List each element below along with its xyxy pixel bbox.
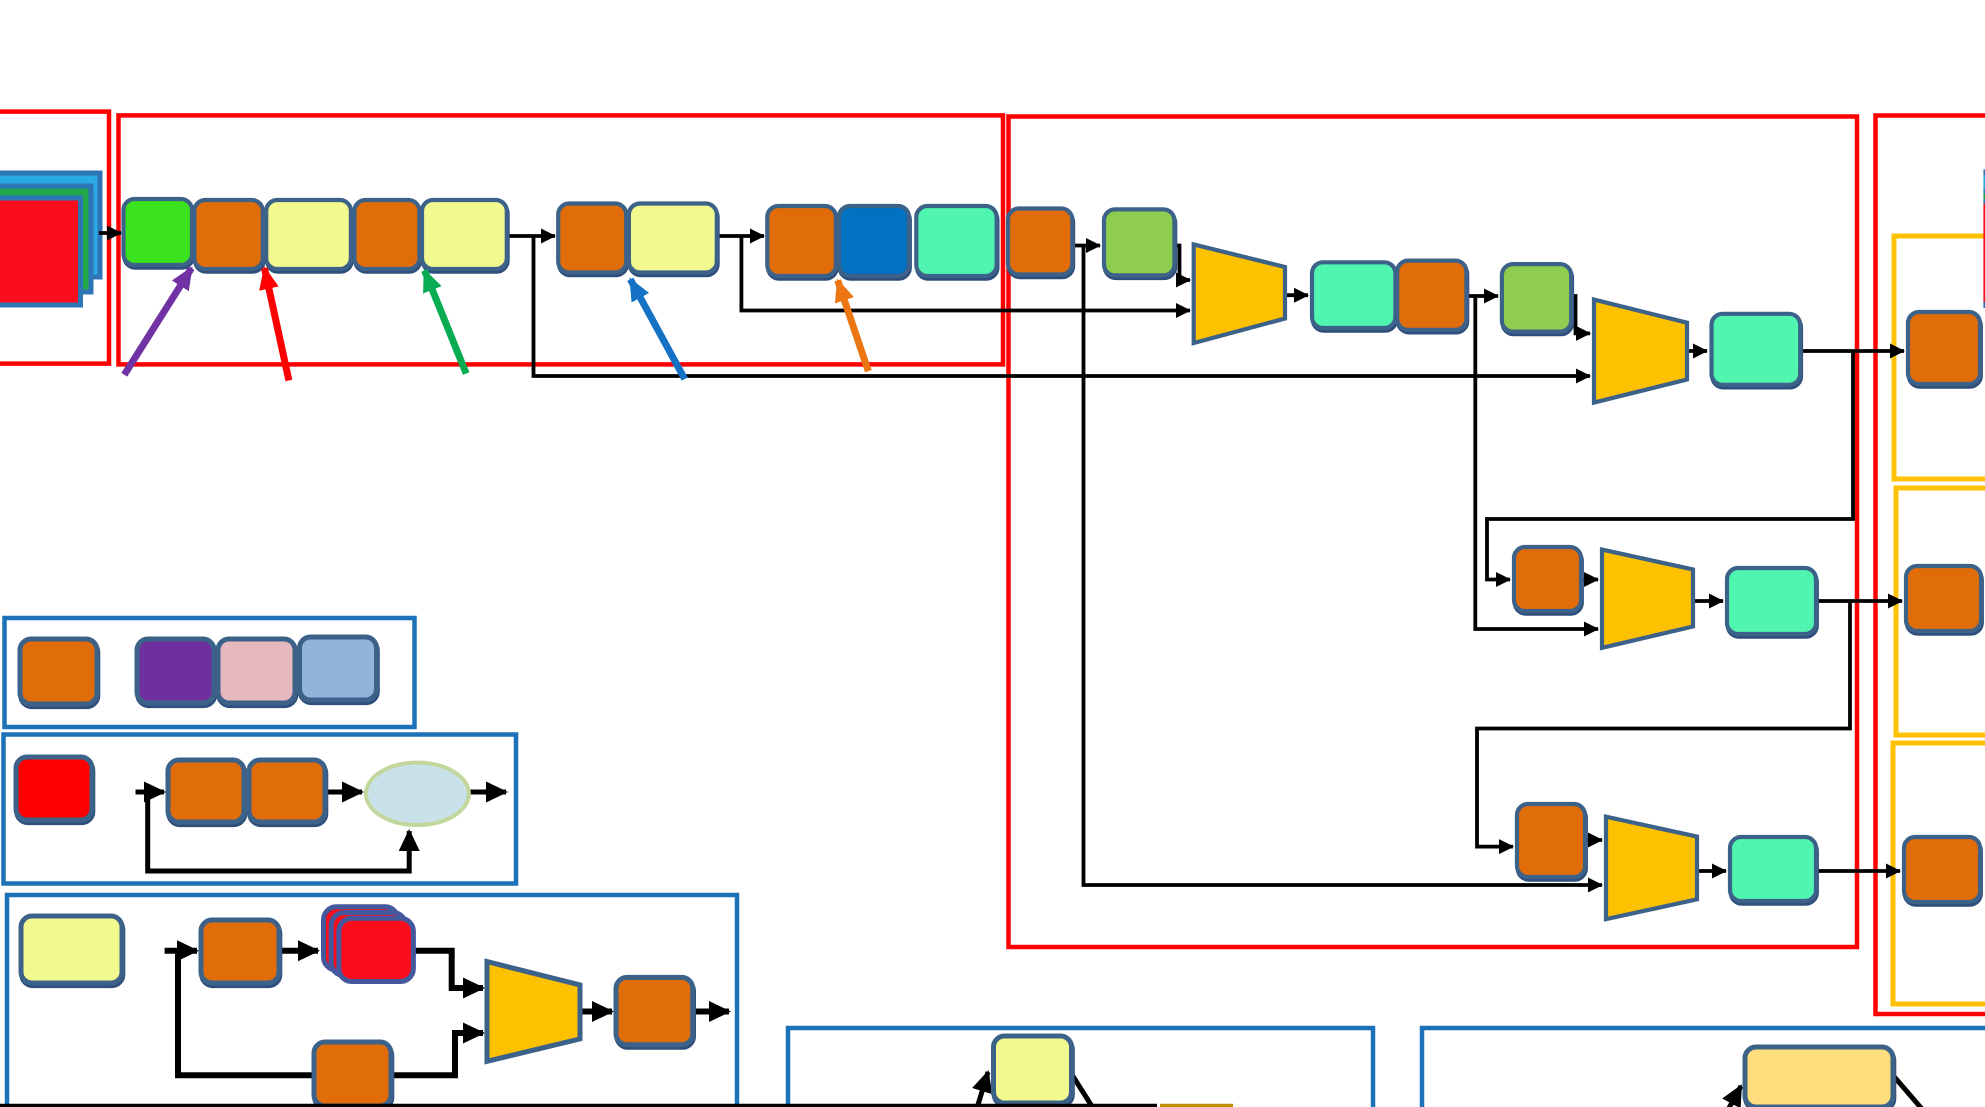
legend3 stack to trapezoid elbow	[413, 951, 483, 988]
conv block (orange) 1	[194, 200, 263, 272]
concat block (spring green) 3	[1712, 314, 1802, 388]
right edge image stack sliver: blue image top border	[1983, 170, 1985, 176]
legend3 conv (orange)	[201, 920, 280, 986]
legend3 input sample (pale yellow)	[21, 916, 123, 986]
annotation arrow green (csp1)	[425, 270, 467, 373]
focus block (green)	[124, 199, 193, 268]
legend5 sample (tan)	[1745, 1047, 1894, 1107]
legend2 add ellipse	[366, 763, 469, 825]
input image stack: blue image	[0, 173, 100, 277]
legend1 sample (pink)	[218, 639, 296, 706]
conv block (orange) 3	[558, 204, 627, 276]
legend1 sample (light blue)	[300, 637, 378, 703]
container: legend blue frame 1	[5, 618, 415, 727]
legend2 conv (orange) b	[249, 760, 326, 825]
legend2 wire conv to add	[325, 790, 362, 795]
container: head stage red frame (cropped right)	[1876, 116, 1985, 1015]
container: legend blue frame 5 (cropped bottom+right)	[1422, 1028, 1985, 1107]
upsample block (yellow green) 1	[1104, 209, 1175, 278]
legend2 input sample (red)	[16, 757, 93, 823]
wire skip branch B down-right to downsample trapezoid 2	[534, 235, 1591, 377]
csp block (pale yellow) 1	[266, 200, 352, 272]
legend2 conv (orange) a	[168, 760, 245, 825]
wire conv block2 to bottleneck group	[717, 234, 764, 238]
wire neck conv to upsample green	[1072, 244, 1100, 248]
wire branch to row3 conv elbow	[1477, 601, 1850, 847]
head conv block (orange) out1	[1908, 312, 1981, 387]
right edge image stack sliver: red image fill	[1983, 204, 1985, 302]
annotation arrow orange (spp)	[838, 280, 869, 371]
row3 conv block (orange)	[1517, 804, 1586, 880]
legend4 peak wire right	[1069, 1070, 1093, 1107]
container: legend blue frame 2	[4, 735, 517, 884]
csp block (pale yellow) 3	[629, 204, 718, 276]
concat block (spring green) 2	[1312, 262, 1396, 330]
head conv block (orange) out3	[1904, 837, 1981, 905]
concat block (spring green) 4	[1727, 568, 1817, 637]
wire concat pair to green conv	[1466, 294, 1498, 298]
csp block (pale yellow) 2	[422, 200, 508, 272]
legend3 wire out	[693, 1009, 729, 1015]
wire trapezoid 2 to sgreen out1	[1687, 349, 1707, 353]
legend3 residual stack middle	[331, 913, 406, 976]
wire sgreen out1 to head conv 1	[1800, 349, 1904, 353]
legend3 lower branch	[178, 948, 483, 1075]
annotation arrow red (conv)	[265, 268, 289, 380]
input image stack: red image	[0, 198, 81, 305]
legend5 peak wire right	[1891, 1073, 1922, 1107]
wire green conv elbow to trapezoid 2 upper input	[1571, 296, 1590, 333]
conv block (orange) 6	[1397, 261, 1467, 333]
conv block (orange) 4	[767, 206, 836, 279]
bottom baseline wire	[0, 1104, 1157, 1107]
right edge image stack sliver: red image top border	[1983, 200, 1985, 205]
wire trapezoid 3 to sgreen out2	[1693, 599, 1723, 603]
wire skip branch A down-right to downsample trapezoid 1	[741, 235, 1190, 311]
wire input to focus block	[99, 231, 121, 235]
wire green to trapezoid 1 elbow	[1174, 246, 1190, 281]
legend4 sample (pale yellow)	[994, 1036, 1073, 1106]
legend4 peak wire left with arrow	[977, 1072, 988, 1107]
container: neck stage red frame	[1009, 117, 1858, 948]
wire row2 conv to trapezoid 3	[1581, 578, 1598, 582]
container: legend blue frame 3 (cropped bottom)	[7, 895, 737, 1107]
legend3 wire in	[165, 948, 197, 954]
wire branch down to trapezoid 3 lower input	[1475, 295, 1598, 630]
legend5 peak wire left with arrow	[1729, 1086, 1741, 1107]
wire branch to row2 conv elbow	[1487, 351, 1853, 580]
legend3 wire conv to stack	[279, 948, 318, 954]
wire row3 conv to trapezoid 4	[1585, 838, 1602, 842]
legend3 residual stack front	[339, 918, 414, 981]
legend2 wire out	[469, 790, 506, 795]
wire sgreen out2 to head conv 2	[1816, 599, 1902, 603]
right edge image stack sliver: green image fill	[1983, 194, 1985, 200]
bottom baseline gold segment	[1160, 1104, 1233, 1107]
legend3 trapezoid to conv	[580, 1009, 612, 1015]
upsample block (yellow green) 2	[1502, 264, 1572, 334]
wire long branch down to trapezoid 4 lower input	[1084, 244, 1603, 885]
container: output gold frame 2	[1896, 488, 1985, 735]
input image stack: green image	[0, 186, 91, 292]
spp block (blue)	[839, 206, 910, 279]
annotation arrow purple (focus)	[124, 268, 191, 375]
downsample trapezoid 3	[1602, 550, 1693, 648]
legend1 focus sample (purple)	[137, 639, 215, 706]
container: input stage red frame	[0, 112, 109, 364]
wire conv row1 to conv block2	[507, 234, 555, 238]
container: output gold frame 1	[1894, 236, 1985, 479]
wire sgreen out3 to head conv 3	[1816, 869, 1900, 873]
downsample trapezoid 4	[1606, 817, 1697, 920]
legend3 out conv (orange)	[616, 977, 694, 1047]
right edge image stack sliver: blue image fill	[1983, 175, 1985, 189]
annotation arrow blue (csp2)	[630, 279, 684, 379]
wire trapezoid 1 to concat sgreen	[1285, 293, 1308, 297]
concat block (spring green) 5	[1730, 837, 1817, 904]
downsample trapezoid 1	[1194, 244, 1285, 343]
conv block (orange) 2	[354, 200, 420, 272]
head conv block (orange) out2	[1906, 566, 1982, 634]
downsample trapezoid 2	[1594, 300, 1687, 403]
right edge image stack sliver: green image top border	[1983, 189, 1985, 194]
csp block (spring green) 1	[916, 206, 997, 279]
right edge image stack sliver: red image bottom border	[1983, 302, 1985, 308]
legend1 conv sample (orange)	[20, 639, 98, 707]
container: legend blue frame 4 (cropped bottom)	[788, 1028, 1373, 1107]
neck conv block (orange) 5	[1008, 209, 1073, 278]
row2 conv block (orange)	[1514, 547, 1582, 614]
legend2 wire in	[136, 790, 165, 795]
legend3 concat trapezoid	[487, 962, 580, 1062]
legend2 feedback loop	[148, 790, 410, 871]
wire trapezoid 4 to sgreen out3	[1697, 869, 1726, 873]
container: backbone stage red frame	[119, 115, 1004, 364]
legend3 lower branch conv (orange)	[314, 1042, 392, 1107]
container: output gold frame 3	[1893, 743, 1985, 1004]
legend3 residual stack back	[324, 907, 399, 970]
